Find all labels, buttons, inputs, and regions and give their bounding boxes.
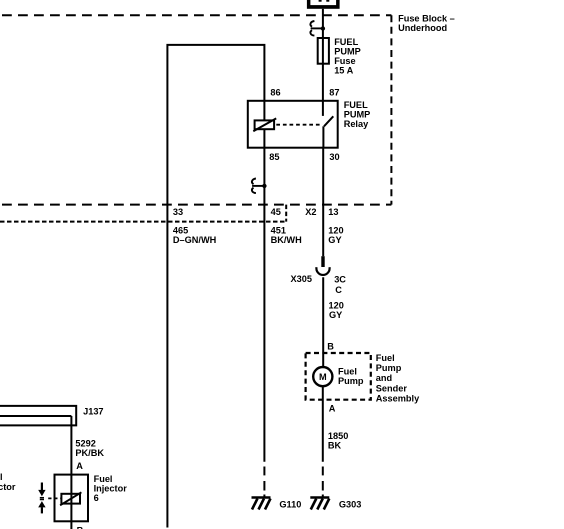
- svg-text:A: A: [76, 461, 83, 471]
- svg-text:PUMP: PUMP: [344, 109, 371, 119]
- label FUEL PUMP Fuse 15 A: [334, 37, 361, 76]
- svg-text:5292: 5292: [75, 438, 95, 448]
- svg-text:86: 86: [270, 88, 280, 98]
- injector actuation dashed link: [48, 497, 61, 499]
- svg-text:Fuel: Fuel: [94, 474, 113, 484]
- label fragment of fuel injector 5 (clipped at left edge): [0, 472, 16, 492]
- relay actuation dashed link: [276, 124, 321, 126]
- svg-text:GY: GY: [328, 235, 341, 245]
- wire: dashed continuation to ground G110: [263, 467, 265, 498]
- svg-text:X2: X2: [305, 207, 316, 217]
- circuit label 120 GY lower: [329, 301, 344, 320]
- circuit label 1850 BK: [328, 431, 348, 451]
- svg-text:BK: BK: [328, 440, 342, 450]
- svg-text:A: A: [329, 404, 336, 414]
- connector X305 male terminal: [321, 256, 324, 267]
- splice pack J137 housing: [0, 406, 76, 426]
- ground G110: [252, 498, 271, 510]
- svg-text:G303: G303: [339, 500, 361, 510]
- injector valve arrows symbol: [38, 483, 45, 514]
- fuse block underhood dashed border bottom: [2, 204, 391, 206]
- relay coil: [253, 118, 276, 131]
- svg-text:C: C: [335, 285, 342, 295]
- svg-text:X305: X305: [291, 274, 312, 284]
- svg-text:465: 465: [173, 226, 188, 236]
- battery feed box (cropped at top edge): [307, 0, 340, 9]
- wire: battery box to fuse: [322, 9, 324, 39]
- svg-text:3C: 3C: [334, 275, 346, 285]
- svg-text:Assembly: Assembly: [376, 394, 420, 404]
- svg-text:PK/BK: PK/BK: [75, 448, 104, 458]
- wire: relay 85 down to fuse block pin 45: [263, 148, 265, 462]
- svg-text:Relay: Relay: [344, 119, 369, 129]
- svg-text:120: 120: [328, 226, 343, 236]
- connector X305 female cup: [316, 267, 329, 275]
- svg-text:85: 85: [269, 152, 279, 162]
- svg-text:D–GN/WH: D–GN/WH: [173, 235, 217, 245]
- svg-text:45: 45: [271, 207, 281, 217]
- wire: J137 to fuel injector 6, circuit 5292 PK/BK: [70, 416, 72, 529]
- wire: pump to pin A: [322, 386, 324, 462]
- svg-text:Fuse Block –: Fuse Block –: [398, 13, 455, 23]
- svg-text:Sender: Sender: [376, 383, 408, 393]
- label Fuel Pump and Sender Assembly: [376, 353, 420, 404]
- svg-text:BK/WH: BK/WH: [271, 235, 302, 245]
- svg-text:87: 87: [329, 88, 339, 98]
- svg-text:451: 451: [271, 226, 286, 236]
- fuse block notch step dashed: [285, 205, 287, 222]
- wire: relay 30 down through pin 13 to connector X305: [322, 148, 324, 257]
- wire: dashed continuation to ground G303: [322, 467, 324, 498]
- label Fuel Pump (inside box): [338, 367, 364, 387]
- svg-text:13: 13: [328, 207, 338, 217]
- circuit label 465 D-GN/WH: [173, 226, 217, 246]
- fuse block underhood dashed border right: [390, 15, 392, 204]
- svg-text:Pump: Pump: [338, 376, 364, 386]
- wire: relay 86 around to fuse block pin 33 and down off page: [167, 45, 264, 528]
- label Fuse Block - Underhood: [398, 13, 455, 33]
- circuit label 120 GY: [328, 226, 343, 246]
- circuit label 5292 PK/BK: [75, 438, 104, 458]
- svg-text:and: and: [376, 373, 392, 383]
- splice pack J137 bus bar: [0, 415, 71, 417]
- svg-text:Underhood: Underhood: [398, 23, 447, 33]
- fuel pump and sender assembly dashed box: [306, 353, 371, 400]
- svg-text:30: 30: [329, 152, 339, 162]
- svg-text:Fuel: Fuel: [0, 472, 3, 482]
- node: junction dot on circuit 451: [262, 184, 266, 188]
- svg-text:J137: J137: [83, 406, 103, 416]
- fuse block underhood dashed border top: [2, 14, 391, 16]
- svg-text:Fuel: Fuel: [376, 353, 395, 363]
- injector coil: [60, 492, 81, 505]
- connector clip symbol at fuse feed: [310, 21, 322, 36]
- node: junction dot at fuse feed: [321, 26, 325, 30]
- svg-text:FUEL: FUEL: [334, 37, 358, 47]
- svg-text:B: B: [327, 341, 334, 351]
- svg-text:PUMP: PUMP: [334, 47, 361, 57]
- relay K: FUEL PUMP Relay box: [248, 101, 338, 148]
- svg-text:GY: GY: [329, 310, 342, 320]
- fuse block notch bottom dashed (dense): [0, 221, 286, 223]
- wire: fuse to relay pin 87: [322, 64, 324, 116]
- svg-text:6: 6: [94, 493, 99, 503]
- fuel injector 6 box: [55, 475, 89, 522]
- circuit label 451 BK/WH: [271, 226, 302, 246]
- svg-text:Injector: Injector: [0, 482, 16, 492]
- svg-text:M: M: [319, 372, 327, 382]
- svg-text:Pump: Pump: [376, 363, 402, 373]
- connector clip symbol on circuit 451: [252, 179, 264, 194]
- svg-text:Injector: Injector: [94, 484, 128, 494]
- relay coil wire to pin 85: [263, 129, 265, 148]
- relay switch blade: [324, 116, 333, 126]
- svg-text:Fuse: Fuse: [334, 56, 355, 66]
- svg-text:33: 33: [173, 207, 183, 217]
- relay coil wire from pin 86: [263, 101, 265, 121]
- relay switch wire to pin 30: [322, 126, 324, 147]
- svg-text:1850: 1850: [328, 431, 348, 441]
- wire: X305 to fuel pump, circuit 120 GY: [322, 277, 324, 367]
- svg-text:Fuel: Fuel: [338, 367, 357, 377]
- motor M: fuel pump: [313, 367, 332, 386]
- label Fuel Injector 6: [94, 474, 128, 503]
- ground G303: [310, 498, 329, 510]
- label FUEL PUMP Relay: [344, 100, 371, 129]
- svg-text:FUEL: FUEL: [344, 100, 368, 110]
- svg-text:15 A: 15 A: [334, 66, 353, 76]
- fuse F: FUEL PUMP Fuse 15 A: [318, 38, 329, 64]
- svg-text:G110: G110: [279, 500, 301, 510]
